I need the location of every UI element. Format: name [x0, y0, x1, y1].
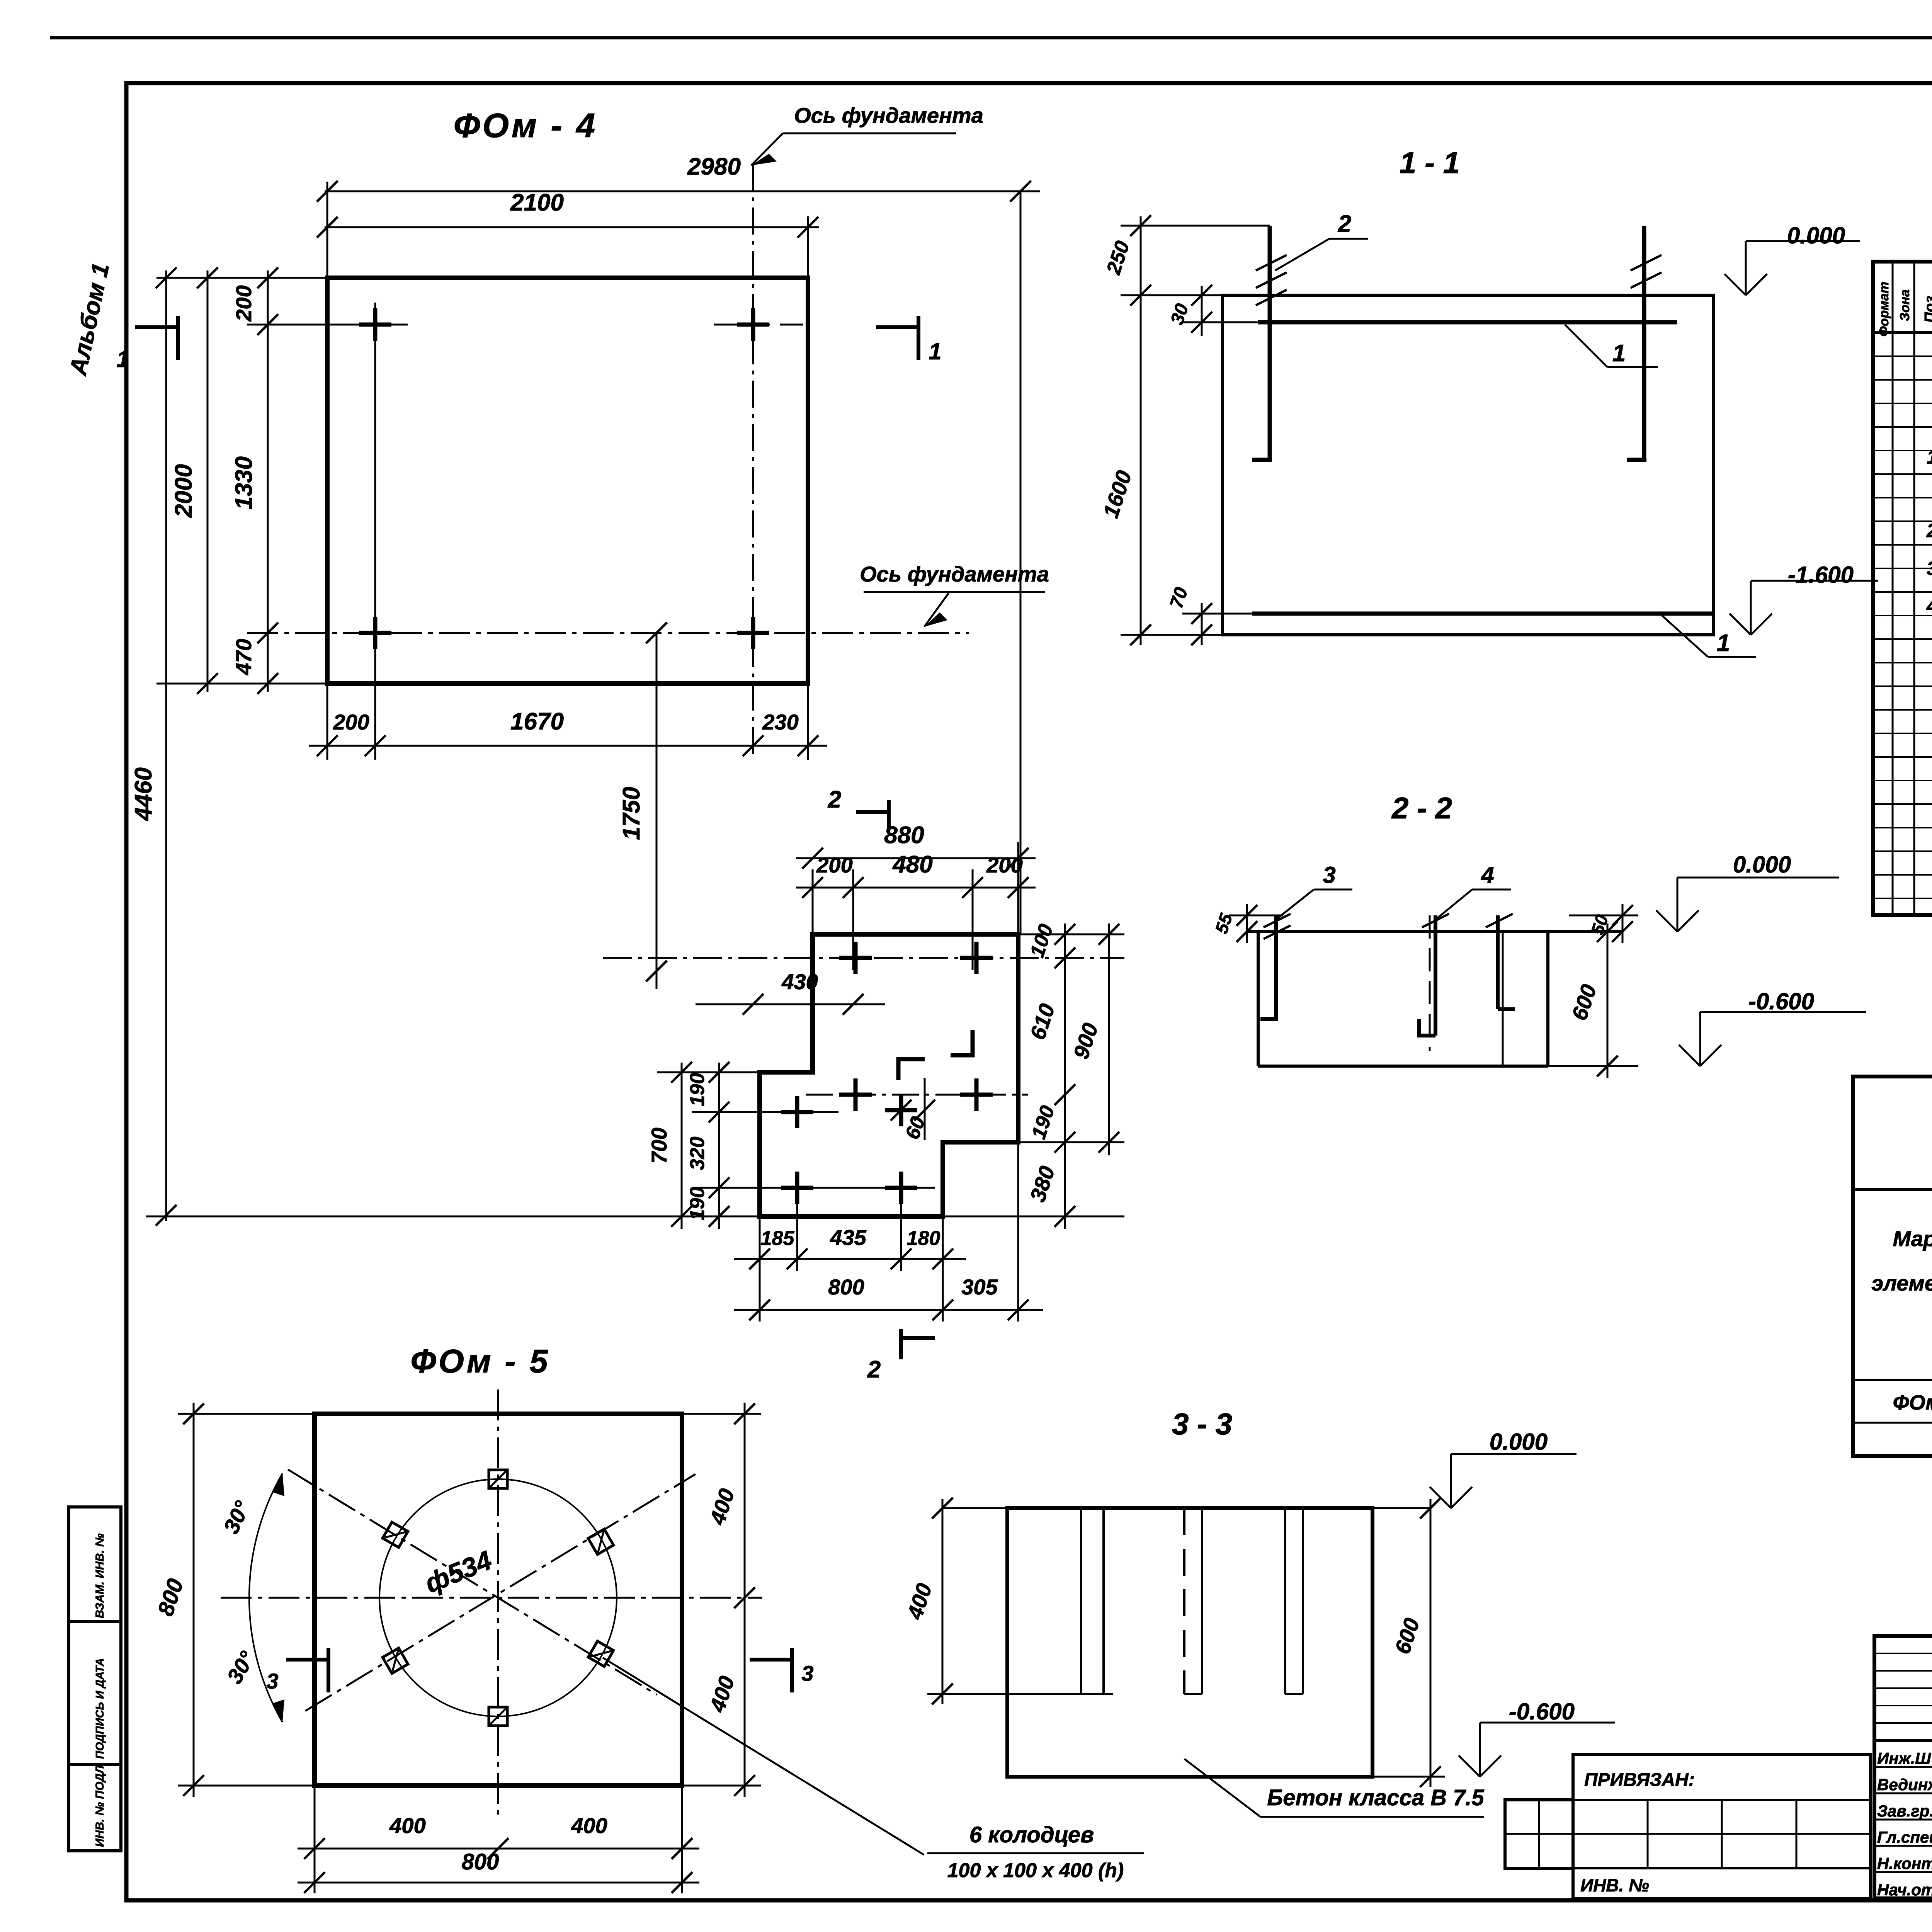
extension line plan top-left	[156, 277, 327, 279]
anchor bolt left	[1268, 226, 1272, 460]
dimension 2000 line	[207, 270, 209, 692]
svg-text:1: 1	[1717, 630, 1730, 656]
section mark 3 right	[750, 1658, 792, 1662]
pad right dimension 900	[1108, 923, 1110, 1155]
section 2-2 inner step line	[1502, 932, 1504, 1066]
svg-text:ИНВ. № ПОДЛ.: ИНВ. № ПОДЛ.	[94, 1762, 106, 1847]
dimension 60	[924, 1078, 926, 1140]
margin box inv n podl	[69, 1765, 121, 1851]
callout 1 bottom	[1662, 615, 1708, 657]
vertical foundation axis	[752, 164, 754, 760]
concrete note leader	[1184, 1759, 1260, 1817]
svg-text:Зона: Зона	[1898, 289, 1912, 321]
callout 1 top	[1565, 325, 1607, 367]
pad left dimension chain 190/320/190	[718, 1063, 720, 1229]
margin box vzam inv	[69, 1507, 121, 1622]
bolt 5	[1496, 915, 1500, 1009]
section 1-1 extension lines	[1121, 225, 1270, 227]
svg-text:190: 190	[686, 1073, 709, 1107]
svg-text:305: 305	[961, 1275, 998, 1299]
svg-text:Зав.гр.: Зав.гр.	[1877, 1802, 1932, 1820]
svg-text:1750: 1750	[618, 787, 645, 840]
section 3-3 dim 400	[942, 1499, 944, 1704]
section 1-1 bottom rebar mesh 1	[1252, 612, 1712, 616]
FOm-5 diagonal axis B	[305, 1474, 696, 1711]
steel table grid	[1853, 1188, 1932, 1191]
embedded plate corner mark right	[951, 1030, 973, 1055]
section 1-1 left dimension line	[1140, 216, 1142, 645]
svg-text:-0.600: -0.600	[1748, 988, 1814, 1014]
svg-text:1 - 1: 1 - 1	[1400, 146, 1460, 180]
dimension 2100	[325, 226, 819, 228]
svg-text:Ось фундамента: Ось фундамента	[860, 562, 1049, 586]
elevation 0.000 section 2-2	[1656, 910, 1677, 932]
extension verticals bottom dims	[327, 684, 328, 760]
pad bottom extension verticals	[759, 1216, 761, 1321]
svg-text:элемента: элемента	[1871, 1271, 1932, 1295]
title block upper grid rows	[1874, 1653, 1932, 1654]
svg-text:Марка: Марка	[1893, 1226, 1932, 1251]
dimension chain 200/480/200	[796, 887, 1036, 889]
svg-text:1: 1	[1927, 446, 1932, 468]
title block staff row lines	[1874, 1766, 1932, 1768]
svg-text:0.000: 0.000	[1733, 852, 1791, 878]
pad left extension lines	[657, 1071, 813, 1073]
svg-text:Гл.спец.: Гл.спец.	[1877, 1828, 1932, 1846]
svg-text:0.000: 0.000	[1490, 1429, 1548, 1455]
svg-text:1: 1	[116, 346, 129, 372]
extension line plan bottom-left	[156, 683, 327, 685]
pad top bolt row axis	[603, 957, 1124, 959]
section 3-3 slot 1	[1080, 1508, 1082, 1694]
svg-text:ПРИВЯЗАН:: ПРИВЯЗАН:	[1584, 1770, 1695, 1790]
section mark 2 top	[856, 810, 889, 814]
svg-text:Н.контр.: Н.контр.	[1877, 1854, 1932, 1872]
plan top-right bolt	[737, 323, 769, 327]
elevation -0.600 section 2-2	[1679, 1045, 1700, 1066]
svg-text:200: 200	[333, 710, 369, 734]
svg-text:2 - 2: 2 - 2	[1391, 791, 1452, 825]
outer thin border top line	[50, 36, 1932, 39]
svg-text:4: 4	[1926, 595, 1932, 617]
pad bottom dimension 800/305	[734, 1309, 1043, 1311]
FOm-5 diagonal axis A	[288, 1469, 657, 1695]
svg-text:800: 800	[462, 1849, 499, 1874]
svg-text:4460: 4460	[130, 767, 157, 821]
section mark 1 right	[876, 325, 918, 329]
svg-text:-1.600: -1.600	[1788, 562, 1854, 588]
svg-text:Поз.: Поз.	[1922, 292, 1932, 323]
svg-text:4: 4	[1481, 862, 1494, 888]
svg-text:1330: 1330	[231, 456, 257, 510]
FOm-5 vertical axis	[497, 1389, 499, 1815]
FOm-5 left dim 800	[193, 1403, 195, 1797]
stepped pad outline	[760, 934, 1018, 1216]
specification header row line	[1873, 331, 1932, 334]
dimension 4460 line	[165, 270, 167, 1221]
svg-text:1670: 1670	[510, 708, 564, 735]
plan bottom bolt axis	[247, 632, 969, 634]
pad right dimension chain 100/610/190/380	[1064, 923, 1066, 1229]
svg-text:ПОДПИСЬ И ДАТА: ПОДПИСЬ И ДАТА	[94, 1658, 106, 1759]
bolt 3	[1274, 915, 1278, 1019]
pad mid bolt axis	[806, 1094, 1028, 1096]
section 3-3 dim 600	[1430, 1499, 1432, 1787]
plan bottom-right bolt	[737, 631, 769, 635]
wells note leader	[603, 1658, 924, 1855]
svg-text:3 - 3: 3 - 3	[1172, 1407, 1232, 1441]
svg-text:ИНВ. №: ИНВ. №	[1580, 1875, 1649, 1895]
svg-text:230: 230	[762, 710, 798, 734]
callout 2	[1275, 239, 1329, 270]
svg-text:ФОм - 5: ФОм - 5	[410, 1343, 550, 1380]
svg-text:3: 3	[1927, 558, 1932, 579]
svg-text:Бетон класса В 7.5: Бетон класса В 7.5	[1267, 1785, 1484, 1810]
elevation 0.000 section 3-3	[1430, 1487, 1451, 1508]
svg-text:ФОм-4: ФОм-4	[1893, 1391, 1932, 1414]
svg-text:Формат: Формат	[1877, 282, 1891, 337]
FOm-5 bottom dim 400/400	[298, 1848, 699, 1850]
FOm-5 bottom extension verticals	[314, 1786, 316, 1893]
pad lower-left bolt	[781, 1110, 813, 1114]
FOm-5 bolt circle	[379, 1479, 617, 1716]
dimension chain 200/1330/470 line	[267, 270, 269, 692]
section 1-1 top rebar mesh 1	[1258, 320, 1677, 325]
pad right extension lines	[1018, 934, 1124, 935]
pad bottom extension line	[146, 1216, 760, 1218]
bottom dimension chain 200/1670/230	[309, 745, 827, 747]
FOm-4 plan outline	[327, 278, 808, 684]
svg-text:2980: 2980	[687, 153, 741, 180]
plan top-left bolt	[359, 323, 391, 327]
section 1-1 inner dims 30/70	[1201, 286, 1203, 336]
dimension 2980	[325, 190, 1040, 192]
svg-text:Вединж.: Вединж.	[1877, 1776, 1932, 1794]
small grid left of privyazan	[1505, 1800, 1573, 1868]
anchor bolt right hatches	[1631, 255, 1662, 270]
specification table columns	[1892, 262, 1894, 915]
svg-text:700: 700	[647, 1128, 671, 1163]
section 3-3 outline	[1007, 1508, 1372, 1777]
dimension 880	[796, 857, 1036, 859]
leader to vertical axis	[751, 133, 783, 165]
FOm-5 angle arc	[249, 1473, 282, 1722]
bolt 4 with axis	[1429, 915, 1431, 1051]
section 2-2 outline	[1257, 932, 1260, 1066]
privyazan table frame	[1573, 1755, 1871, 1898]
pad bottom dimension chain 185/435/180	[734, 1258, 966, 1260]
steel table frame	[1853, 1077, 1932, 1456]
svg-text:400: 400	[389, 1813, 425, 1838]
svg-text:2: 2	[828, 786, 841, 813]
section mark 2 bottom	[899, 1329, 903, 1359]
svg-text:190: 190	[686, 1187, 709, 1221]
pad left dimension 700	[681, 1063, 683, 1229]
svg-text:3: 3	[801, 1661, 813, 1685]
svg-text:2: 2	[867, 1356, 881, 1383]
extension verticals pad top	[812, 869, 814, 934]
svg-text:180: 180	[907, 1227, 940, 1250]
anchor bolt left hatches	[1256, 255, 1287, 270]
section 3-3 top line	[942, 1507, 1430, 1509]
section 2-2 dim 600	[1607, 923, 1609, 1078]
specification table frame	[1873, 262, 1932, 915]
svg-text:430: 430	[781, 969, 818, 994]
callout 3	[1276, 889, 1314, 920]
pad top bolts	[839, 956, 872, 960]
section 2-2 ground line	[1247, 930, 1622, 933]
svg-text:2: 2	[1926, 520, 1932, 541]
dimension 430	[696, 1003, 885, 1005]
svg-text:435: 435	[830, 1225, 866, 1250]
svg-text:6 колодцев: 6 колодцев	[969, 1822, 1094, 1847]
svg-text:470: 470	[231, 639, 256, 675]
extension verticals for top dims	[327, 182, 328, 278]
FOm-5 outline	[315, 1414, 682, 1786]
svg-text:ВЗАМ. ИНВ. №: ВЗАМ. ИНВ. №	[94, 1534, 106, 1618]
svg-text:185: 185	[761, 1227, 795, 1250]
section mark 3 left	[286, 1658, 328, 1662]
top bolt axis left segment	[247, 324, 408, 326]
dimension 1750	[656, 633, 658, 989]
embedded plate corner mark left	[898, 1059, 925, 1080]
pad bottom bolts	[781, 1186, 813, 1190]
section 3-3 slot 3	[1284, 1508, 1286, 1694]
title block frame	[1874, 1636, 1932, 1898]
svg-text:Нач.отд.: Нач.отд.	[1877, 1881, 1932, 1899]
callout 4	[1435, 889, 1472, 920]
FOm-5 bottom dim 800	[298, 1882, 699, 1884]
svg-text:3: 3	[266, 1669, 278, 1693]
svg-text:2: 2	[1338, 211, 1351, 237]
extension line right of plan	[1020, 191, 1022, 934]
svg-text:3: 3	[1323, 862, 1335, 888]
svg-text:Ось фундамента: Ось фундамента	[794, 103, 983, 128]
svg-text:1: 1	[929, 338, 941, 364]
svg-text:-0.600: -0.600	[1509, 1699, 1575, 1725]
section mark 1 left	[135, 325, 178, 329]
anchor bolt right	[1642, 226, 1646, 460]
margin box podpis i data	[69, 1622, 121, 1765]
title block mid line	[1874, 1739, 1932, 1742]
svg-text:100 х 100 х 400 (h): 100 х 100 х 400 (h)	[947, 1859, 1124, 1882]
elevation -0.600 section 3-3	[1459, 1755, 1480, 1777]
svg-text:200: 200	[816, 853, 852, 877]
elevation 0.000 section 1-1	[1725, 274, 1746, 295]
svg-text:400: 400	[571, 1813, 607, 1838]
section 2-2 dim 50	[1622, 904, 1624, 943]
elevation -1.600 section 1-1	[1730, 614, 1751, 635]
svg-text:800: 800	[828, 1275, 864, 1299]
svg-text:320: 320	[686, 1137, 709, 1170]
left bolt vertical axis	[374, 303, 376, 760]
specification row lines	[1873, 355, 1932, 357]
svg-text:2100: 2100	[510, 189, 564, 216]
svg-text:2000: 2000	[170, 464, 197, 518]
plan bottom-left bolt	[359, 631, 391, 635]
svg-text:ФОм - 4: ФОм - 4	[454, 106, 597, 145]
svg-text:200: 200	[231, 285, 256, 321]
section 3-3 slot 2 axis	[1183, 1508, 1185, 1694]
svg-text:Инж.Ш: Инж.Ш	[1877, 1749, 1931, 1767]
section 1-1 outline	[1223, 295, 1713, 635]
svg-text:480: 480	[892, 851, 932, 878]
FOm-5 horizontal axis	[221, 1597, 762, 1599]
FOm-5 anchor wells	[489, 1470, 507, 1488]
svg-text:0.000: 0.000	[1787, 223, 1845, 248]
pad mid bolts	[839, 1093, 872, 1097]
svg-text:1: 1	[1612, 340, 1626, 367]
FOm-5 right dim 400/400	[744, 1403, 746, 1797]
section 2-2 dim 55	[1246, 904, 1248, 943]
